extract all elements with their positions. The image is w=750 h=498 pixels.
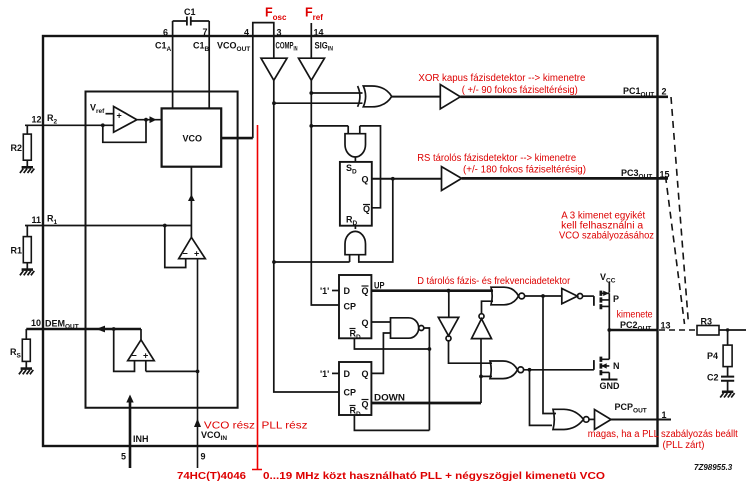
input buffer on COMP_IN — [261, 58, 287, 80]
svg-text:+: + — [143, 351, 148, 361]
red bottom caption — [177, 471, 605, 482]
PCP output buffer — [589, 410, 611, 430]
capacitor C1 — [173, 7, 210, 26]
RS flip-flop box — [340, 162, 372, 227]
node: COMP to RS gate — [272, 260, 276, 264]
pin 7 C1B wire — [193, 21, 210, 108]
node: NOR2 out branch — [528, 368, 532, 372]
svg-text:XOR kapus fázisdetektor --> ki: XOR kapus fázisdetektor --> kimenetre — [418, 73, 585, 84]
INH wire pin 5 — [121, 401, 149, 468]
N-MOS transistor — [594, 357, 620, 376]
resistor P4 — [707, 330, 732, 367]
op-amp A3 — [128, 340, 155, 361]
PC2_OUT wire pin 13 — [609, 320, 696, 333]
resistor R3 — [697, 317, 746, 336]
svg-text:R3: R3 — [701, 317, 713, 327]
svg-text:'1': '1' — [320, 286, 329, 296]
wire SIG to RS upper AND input — [311, 126, 360, 134]
svg-text:VCO: VCO — [183, 134, 203, 144]
node: DOWN to NOR2 — [479, 375, 483, 379]
op-amp A1 — [90, 103, 137, 133]
svg-text:−: − — [132, 351, 137, 361]
op-amp A2 — [179, 237, 206, 258]
XOR gate PC1 — [358, 86, 392, 107]
A1 feedback wire — [103, 120, 146, 143]
NOR gate N2 (N-side) — [490, 361, 524, 379]
wire lower FF Q to NAND lower input — [371, 333, 391, 373]
dashed link pin2 to R3 — [671, 97, 689, 324]
wire XOR out to PC1 buffer — [391, 96, 440, 98]
PCP NOR gate — [553, 409, 589, 429]
wire AND out to S_D — [354, 157, 356, 162]
node: COMP to XOR — [272, 101, 276, 105]
node: A1 inverting input — [101, 123, 105, 127]
svg-text:D tárolós fázis- és frekvencia: D tárolós fázis- és frekvenciadetektor — [417, 276, 571, 287]
svg-text:Q: Q — [362, 400, 369, 410]
A1 output wire to VCO — [137, 119, 162, 121]
resistor R2 — [11, 125, 32, 166]
arrow up into VCO — [188, 194, 195, 201]
pin 6 C1A wire — [155, 21, 173, 108]
svg-text:Q: Q — [362, 318, 369, 328]
svg-text:+: + — [117, 111, 122, 121]
svg-text:P4: P4 — [707, 351, 718, 361]
wire NOR1 to P inverter — [525, 295, 562, 297]
svg-text:−: − — [183, 249, 188, 259]
svg-text:(PLL zárt): (PLL zárt) — [663, 440, 705, 451]
red annotation outputs note — [559, 211, 654, 242]
DEM_OUT wire pin 10 — [26, 318, 141, 331]
VCO section inner box — [86, 92, 238, 408]
node: UP to inverter — [447, 289, 451, 293]
wire COMP to XOR bottom input — [274, 102, 363, 104]
node: reset junction — [428, 347, 432, 351]
pin 12 R2 wire — [25, 113, 114, 126]
svg-text:11: 11 — [32, 215, 42, 225]
svg-text:4: 4 — [244, 28, 249, 38]
svg-text:9: 9 — [201, 452, 206, 462]
arrow left on DEM_OUT — [96, 326, 105, 333]
capacitor C2 — [707, 367, 734, 391]
arrow up on VCO_IN — [194, 419, 201, 428]
PCP_OUT wire pin 1 — [611, 402, 671, 420]
svg-text:kimenete: kimenete — [617, 310, 653, 321]
wire NOR2 branch to PCP NOR — [530, 370, 553, 426]
A3 feedback wire — [114, 329, 135, 371]
svg-text:2: 2 — [662, 87, 667, 97]
resistor RS — [10, 329, 30, 368]
dashed link pin15 to R3 — [666, 176, 685, 324]
ground (RS) — [19, 369, 33, 375]
Q feedback wire to lower AND — [359, 179, 393, 262]
svg-text:magas, ha a PLL szabályozás be: magas, ha a PLL szabályozás beállt — [588, 429, 738, 440]
Vcc supply — [600, 272, 616, 293]
svg-text:74HC(T)4046: 74HC(T)4046 — [177, 471, 246, 482]
svg-text:PLL rész: PLL rész — [262, 421, 308, 432]
upper D flip-flop U1 — [320, 275, 371, 341]
RS upper AND gate — [345, 134, 366, 157]
pin 3 COMP_IN wire — [274, 28, 298, 59]
wire NOR2 to N gate — [524, 369, 594, 371]
svg-text:R1: R1 — [11, 246, 23, 256]
svg-text:+: + — [194, 249, 199, 259]
SIG_IN internal wire — [311, 80, 339, 305]
NAND gate (reset) — [391, 318, 424, 338]
red annotation VCO/PLL parts — [204, 421, 308, 432]
svg-text:DOWN: DOWN — [374, 393, 405, 403]
svg-text:D: D — [344, 369, 351, 379]
ground (R1) — [20, 270, 34, 276]
P driver inverter — [562, 289, 594, 304]
node: A3 feedback — [112, 327, 116, 331]
svg-text:R2: R2 — [11, 143, 23, 153]
svg-text:14: 14 — [314, 28, 324, 38]
node: SIG to RS gate — [309, 124, 313, 128]
svg-text:( +/- 90 fokos fáziseltérésig): ( +/- 90 fokos fáziseltérésig) — [462, 85, 578, 96]
svg-text:(+/- 180 fokos fáziseltérésig): (+/- 180 fokos fáziseltérésig) — [463, 165, 586, 176]
Q output wire to PC3 buffer — [372, 178, 442, 180]
svg-text:7Z98955.3: 7Z98955.3 — [694, 463, 733, 472]
P-MOS transistor — [594, 291, 619, 310]
ground (C2) — [720, 392, 734, 398]
VCO_IN wire pin 9 — [198, 259, 228, 468]
RS lower AND gate — [345, 231, 366, 254]
pin 4 VCO_OUT wire and external jumper to pin 3 — [217, 23, 274, 139]
drain rail P to N — [608, 293, 610, 359]
wire DOWN node to NOR2 input — [481, 375, 492, 377]
node: NOR1 out branch — [541, 294, 545, 298]
wire NOR1 branch to PCP NOR — [543, 296, 556, 414]
svg-text:7: 7 — [203, 27, 208, 37]
PC3_OUT wire pin 15 — [462, 168, 670, 181]
svg-text:10: 10 — [31, 318, 41, 328]
svg-text:C2: C2 — [707, 373, 719, 383]
wire COMP to RS lower AND input — [274, 255, 350, 262]
PC1 output buffer — [440, 85, 460, 109]
svg-text:P: P — [613, 294, 619, 304]
GND symbol — [600, 372, 621, 391]
svg-text:VCO rész: VCO rész — [204, 421, 255, 432]
svg-text:5: 5 — [121, 452, 126, 462]
A2 inverting loop wire — [165, 226, 186, 268]
svg-text:12: 12 — [32, 115, 42, 125]
svg-text:1: 1 — [662, 410, 667, 420]
node: PC2 tap — [607, 328, 611, 332]
ground (R2) — [20, 167, 34, 173]
wire VCO current input — [190, 167, 192, 238]
svg-text:UP: UP — [374, 281, 385, 291]
svg-text:15: 15 — [660, 170, 670, 180]
VCO output wire to pin 4 — [221, 137, 253, 140]
svg-text:3: 3 — [277, 28, 282, 38]
Qbar feedback loop wire — [360, 126, 381, 208]
COMP_IN internal wire — [274, 80, 339, 392]
PC1_OUT wire pin 2 — [460, 86, 668, 99]
svg-text:VCO szabályozásához: VCO szabályozásához — [559, 231, 654, 242]
node: A1 output — [144, 118, 148, 122]
svg-text:Q: Q — [362, 175, 369, 185]
svg-text:C1: C1 — [184, 7, 196, 17]
svg-text:Q: Q — [362, 286, 369, 296]
arrow into VCO — [150, 116, 157, 123]
node: SIG to XOR — [309, 91, 313, 95]
inverter (UP, pointing down) — [438, 291, 492, 364]
red annotation RS detector — [417, 153, 586, 176]
node: Q feedback — [391, 177, 395, 181]
input buffer on SIG_IN — [299, 58, 325, 80]
DOWN wire (Qbar of lower FF) — [371, 393, 481, 404]
svg-text:RS tárolós fázisdetektor --> k: RS tárolós fázisdetektor --> kimenetre — [417, 153, 576, 164]
NAND output reset wire — [424, 328, 430, 430]
svg-text:GND: GND — [600, 381, 621, 391]
wire reset to upper FF Rd — [354, 338, 429, 349]
A3 output wire to DEM_OUT — [140, 329, 142, 340]
red divider VCO/PLL — [252, 125, 262, 470]
svg-text:0...19 MHz közt használható PL: 0...19 MHz közt használható PLL + négysz… — [263, 471, 605, 482]
wire SIG to XOR top input — [311, 92, 362, 94]
pin 14 SIG_IN wire — [311, 23, 333, 58]
wire upper FF Q to NAND — [371, 321, 391, 323]
svg-text:CP: CP — [344, 302, 357, 312]
svg-text:13: 13 — [661, 321, 671, 331]
UP wire (Qbar of upper FF) — [371, 281, 493, 291]
svg-text:'1': '1' — [320, 369, 329, 379]
VCO block — [162, 108, 222, 166]
wire AND out to R_D — [354, 226, 356, 230]
PC3 output buffer — [442, 167, 462, 191]
NOR gate N1 (P-side) — [491, 287, 525, 305]
pin 11 R1 wire — [25, 214, 191, 227]
inverter (DOWN, pointing up) — [472, 301, 494, 338]
node: R3/P4 — [726, 328, 729, 331]
svg-text:6: 6 — [163, 28, 168, 38]
svg-text:N: N — [613, 361, 620, 371]
wire DOWN up to inverter input — [480, 339, 482, 403]
svg-text:D: D — [344, 286, 351, 296]
node: VCO_IN to A3 — [196, 370, 200, 374]
arrow up on INH — [126, 395, 133, 403]
svg-text:Q: Q — [362, 369, 369, 379]
red annotation XOR detector — [418, 73, 585, 96]
resistor R1 — [11, 226, 32, 269]
svg-text:INH: INH — [133, 434, 149, 444]
svg-text:Q: Q — [363, 204, 370, 214]
red annotation PCP note — [588, 429, 738, 451]
chip boundary 74HC(T)4046 — [43, 36, 658, 446]
lower D flip-flop U2 — [320, 362, 371, 418]
svg-text:CP: CP — [344, 388, 357, 398]
node: R1 to A2 loop — [163, 224, 167, 228]
wire reset to lower FF Rd — [354, 415, 429, 430]
wire VCO_IN to A3 + input — [146, 361, 198, 372]
